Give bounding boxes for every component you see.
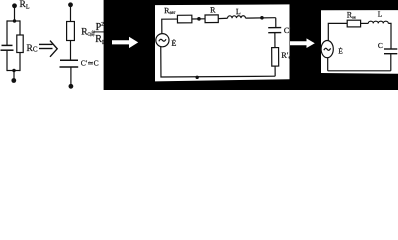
capacitor C' (circuit 3) bottom plate	[268, 32, 281, 34]
node top terminal dot	[12, 3, 17, 8]
wire C' to R'	[274, 33, 276, 48]
wire bottom vertical	[13, 71, 15, 81]
wire between R and L	[218, 17, 227, 19]
resistor R_ser box	[177, 15, 191, 23]
source E tilde	[159, 39, 166, 41]
node bottom terminal dot	[11, 78, 16, 83]
white panel C	[321, 10, 398, 74]
source E ellipse (circuit 4)	[321, 41, 333, 58]
wire R' down	[274, 66, 276, 76]
node bottom terminal dot	[69, 84, 74, 89]
capacitor C (circuit 4) top plate	[384, 48, 397, 50]
implication arrow upper line	[39, 43, 53, 45]
svg-text:Ė: Ė	[338, 47, 343, 56]
wire top vertical	[14, 6, 16, 21]
capacitor C' (circuit 2) top plate	[60, 59, 78, 61]
node dot on bottom wire	[195, 76, 198, 79]
wire top-left corner	[162, 19, 178, 34]
resistor R_C(w) box	[67, 22, 75, 41]
resistor Rc box	[17, 35, 23, 53]
resistor R' box	[272, 48, 279, 67]
wire bottom junction bar	[7, 70, 20, 72]
wire between R_ser and R	[192, 18, 205, 20]
wire bottom	[161, 46, 275, 77]
svg-text:R: R	[210, 5, 216, 14]
implication arrow chevron	[50, 41, 57, 57]
wire corner down to C'	[275, 18, 277, 27]
source E circle (circuit 3)	[156, 34, 169, 47]
svg-text:L: L	[236, 7, 241, 16]
wire top junction bar	[7, 20, 20, 22]
wire right branch lower	[19, 53, 21, 72]
wire left lower	[327, 58, 329, 71]
node bottom junction dot	[12, 69, 15, 72]
svg-text:C: C	[378, 41, 383, 50]
source E tilde (circuit 4)	[324, 48, 331, 50]
inductor L coil (circuit 4)	[368, 21, 388, 23]
white panel B	[155, 4, 290, 81]
node dot after L	[260, 16, 264, 20]
node top terminal dot	[68, 2, 73, 7]
capacitor C (circuit 4) bottom plate	[384, 53, 397, 55]
wire bottom	[328, 70, 391, 72]
capacitor C (circuit 1) bottom plate	[1, 49, 14, 51]
resistor R box	[205, 15, 218, 23]
implication arrow between circuit 1 and 2	[39, 41, 57, 57]
capacitor C' (circuit 2) bottom plate	[60, 66, 79, 68]
white background	[0, 0, 398, 90]
wire between L and C' corner	[245, 17, 275, 19]
svg-text:RC: RC	[27, 44, 38, 54]
node top junction dot	[13, 19, 16, 22]
resistor R_se box	[347, 20, 360, 27]
wire right down	[390, 54, 392, 71]
wire left branch upper	[6, 20, 8, 45]
wire top vertical	[70, 5, 72, 22]
fraction bar	[95, 31, 105, 33]
black background region	[104, 0, 398, 90]
svg-text:C′: C′	[284, 26, 291, 35]
wire right branch upper	[19, 20, 21, 35]
capacitor C (circuit 1) top plate	[2, 44, 13, 46]
wire middle vertical	[70, 41, 72, 60]
white arrow 1 (inside black band)	[112, 37, 138, 48]
wire between box and coil	[361, 22, 369, 24]
node dot between R_ser and R	[197, 17, 201, 21]
implication arrow lower line	[39, 48, 53, 50]
capacitor C' (circuit 3) top plate	[268, 27, 281, 29]
svg-text:C′≃C: C′≃C	[81, 58, 99, 67]
white arrow 2 (between panels B and C)	[290, 38, 315, 48]
svg-text:Ė: Ė	[171, 39, 176, 48]
wire top-left corner	[328, 23, 347, 40]
wire top-right corner down	[388, 23, 391, 48]
wire bottom vertical	[70, 68, 72, 87]
svg-text:L: L	[378, 10, 383, 19]
inductor L coil	[228, 16, 246, 19]
wire left branch lower	[6, 51, 8, 71]
